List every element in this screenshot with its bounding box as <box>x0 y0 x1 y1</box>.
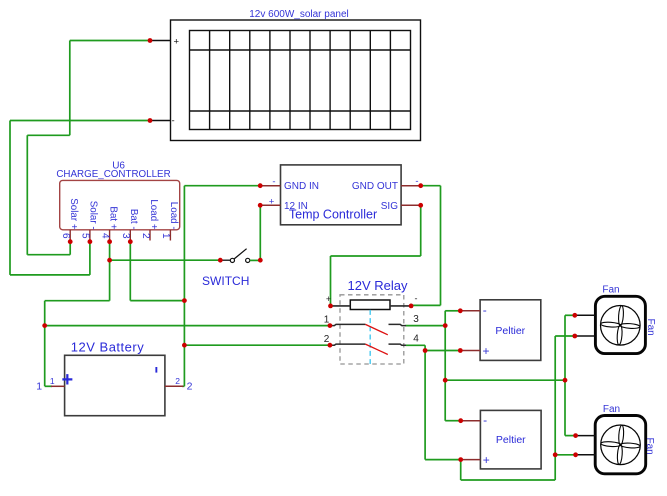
svg-text:+: + <box>483 453 490 467</box>
svg-text:1: 1 <box>50 376 55 386</box>
svg-text:Fan: Fan <box>644 438 655 455</box>
svg-text:2: 2 <box>175 376 180 386</box>
node peltier1 + <box>458 348 463 353</box>
node fan1 term1 <box>572 313 577 318</box>
node relay contact1 <box>328 323 333 328</box>
svg-text:Peltier: Peltier <box>496 434 526 446</box>
svg-text:Fan: Fan <box>602 285 619 296</box>
wire peltier1- seg1 <box>445 310 460 312</box>
junction contact3 minus net <box>443 323 448 328</box>
battery pin 2 <box>165 376 193 393</box>
node relay contact2 <box>328 343 333 348</box>
svg-text:-: - <box>483 303 487 317</box>
svg-text:+: + <box>326 294 331 304</box>
wire fan vertical plus <box>554 336 556 480</box>
wire pin4 junction to switch <box>110 259 221 261</box>
wire minus net to peltier2- <box>445 420 461 422</box>
svg-text:12v 600W_solar panel: 12v 600W_solar panel <box>249 9 349 20</box>
wire solar+ seg2 <box>69 41 71 136</box>
wire battery+ seg4 <box>45 385 52 387</box>
wire relay contact4 seg1 <box>406 344 426 346</box>
svg-text:3: 3 <box>413 314 419 325</box>
fan 2 body <box>595 416 646 474</box>
wire peltier2+ down <box>460 460 462 480</box>
svg-text:GND IN: GND IN <box>284 181 319 192</box>
svg-text:1: 1 <box>160 233 171 239</box>
relay actuator dashed line <box>369 310 371 364</box>
temp controller pin SIG <box>381 201 421 212</box>
junction fan minus vertical <box>563 378 568 383</box>
relay dashed outline <box>340 295 404 364</box>
svg-text:Bat +: Bat + <box>107 206 118 229</box>
node relay coil+ <box>328 304 333 309</box>
svg-text:Solar +: Solar + <box>68 198 79 230</box>
wire battery- seg3 <box>183 301 185 387</box>
junction minus net fans <box>443 378 448 383</box>
peltier 2 - pin <box>461 413 487 427</box>
node peltier2 - <box>458 418 463 423</box>
junction contact4 plus net <box>423 348 428 353</box>
node GND OUT <box>418 183 423 188</box>
wire minus net horizontal to fans <box>445 379 565 381</box>
solar panel - pin <box>150 116 175 127</box>
wire switch to 12IN <box>259 205 261 260</box>
svg-text:2: 2 <box>140 233 151 239</box>
node U6 pin6 <box>68 239 73 244</box>
svg-text:2: 2 <box>187 381 193 393</box>
wire plus net vertical <box>424 351 426 460</box>
svg-text:+: + <box>174 36 180 47</box>
wire fan2 term1 <box>565 435 576 437</box>
node U6 pin3 <box>128 239 133 244</box>
wire SIG seg2 <box>331 255 421 257</box>
wire minus net vertical <box>444 311 446 421</box>
wire solar+ seg6 <box>69 242 71 255</box>
node switch right <box>258 258 263 263</box>
wire plus net to peltier1+ <box>425 350 460 352</box>
svg-text:4: 4 <box>99 233 110 239</box>
wire battery+ seg2 <box>45 300 110 302</box>
wire solar+ seg5 <box>27 254 70 256</box>
battery - mark <box>155 367 157 373</box>
wire U6 pin4 to battery+ seg1 <box>109 242 111 301</box>
svg-text:+: + <box>482 344 489 358</box>
node peltier1 - <box>458 308 463 313</box>
solar panel body <box>171 20 421 141</box>
wire fan2 term2 <box>555 454 575 456</box>
peltier 2 body <box>480 410 541 469</box>
temp controller body <box>281 165 402 225</box>
svg-text:+: + <box>269 196 275 207</box>
wire solar+ seg3 <box>27 134 70 136</box>
wire GND IN seg1 <box>184 185 260 187</box>
wire solar- seg3 <box>10 274 90 276</box>
fan 1 body <box>595 296 645 353</box>
junction fan plus vertical <box>553 452 558 457</box>
node U6 pin4 <box>107 239 112 244</box>
charge controller U6 body <box>60 180 180 229</box>
svg-text:5: 5 <box>80 233 91 239</box>
peltier 1 - pin <box>460 303 487 317</box>
wire relay contact3 to minus net <box>406 325 446 327</box>
node SIG <box>418 203 423 208</box>
wire battery+ to relay contact1 <box>45 325 330 327</box>
node U6 pin5 <box>88 239 93 244</box>
svg-text:-: - <box>483 413 487 427</box>
svg-text:4: 4 <box>413 334 419 345</box>
svg-text:1: 1 <box>36 381 42 393</box>
junction battery- contact2 <box>182 343 187 348</box>
junction pin4-switch <box>107 258 112 263</box>
svg-text:-: - <box>415 294 418 304</box>
battery body <box>65 355 165 415</box>
wire battery- to relay contact2 <box>184 344 330 346</box>
wire solar- seg2 <box>9 121 11 275</box>
wire plus net to peltier2+ <box>425 459 461 461</box>
svg-text:Load +: Load + <box>148 199 159 230</box>
svg-text:12V Relay: 12V Relay <box>348 278 408 293</box>
wire solar- seg4 <box>89 242 91 275</box>
wire SIG seg3 <box>330 256 332 306</box>
junction pin3 gndin battery- <box>182 298 187 303</box>
wire solar+ to U6 pin6 seg1 <box>70 40 150 42</box>
svg-text:Load -: Load - <box>168 202 179 230</box>
wire battery- seg4 <box>182 385 184 387</box>
wire solar- to U6 pin5 seg1 <box>10 120 150 122</box>
wire plus net bottom horizontal <box>461 479 556 481</box>
node GND IN <box>258 183 263 188</box>
node solar+ terminal <box>148 38 153 43</box>
wire SIG to relay coil+ seg1 <box>420 205 422 256</box>
wire GND OUT seg3 <box>411 304 440 306</box>
svg-text:+: + <box>61 369 73 391</box>
svg-text:Solar -: Solar - <box>88 201 99 230</box>
svg-text:-: - <box>415 176 418 187</box>
svg-text:SWITCH: SWITCH <box>202 274 249 288</box>
wire GND OUT to relay coil- seg1 <box>421 185 441 187</box>
wire contact4 seg2 <box>424 345 426 350</box>
svg-text:6: 6 <box>60 233 71 239</box>
wire GND OUT seg2 <box>440 186 442 306</box>
node 12 IN <box>258 203 263 208</box>
svg-text:Bat -: Bat - <box>128 209 139 230</box>
wire fan vertical minus <box>564 315 566 435</box>
wire solar+ seg4 <box>26 135 28 254</box>
wire U6 pin3 to battery- seg1 <box>129 242 131 301</box>
wire fan1 term2 <box>555 335 575 337</box>
fan 1 pins <box>575 315 595 336</box>
switch SW1 <box>223 249 261 263</box>
wire fan1 term1 <box>565 314 575 316</box>
svg-text:Fan: Fan <box>645 319 656 336</box>
node fan2 term2 <box>573 452 578 457</box>
wire battery- seg2 <box>130 300 184 302</box>
battery pin 1 <box>36 376 64 393</box>
svg-text:-: - <box>172 116 175 127</box>
junction battery+ contact1 <box>42 323 47 328</box>
temp controller pin 12 IN <box>260 196 308 212</box>
temp controller pin GND OUT <box>352 176 421 192</box>
fan 2 pins <box>576 436 596 455</box>
svg-text:Peltier: Peltier <box>495 325 525 337</box>
svg-text:3: 3 <box>120 233 131 239</box>
temp controller pin GND IN <box>260 177 319 193</box>
node fan2 term1 <box>573 433 578 438</box>
peltier 1 + pin <box>460 344 489 358</box>
peltier 2 + pin <box>461 453 490 467</box>
svg-text:-: - <box>272 177 275 188</box>
U6 pin stubs <box>70 230 170 242</box>
solar panel + pin <box>150 36 180 47</box>
node switch left <box>218 258 223 263</box>
node fan1 term2 <box>572 334 577 339</box>
peltier 1 body <box>480 300 541 361</box>
relay contact 1-3 <box>330 324 406 334</box>
relay contact 2-4 <box>330 344 406 354</box>
wire GND IN seg2 <box>183 186 185 301</box>
svg-text:12 IN: 12 IN <box>284 201 308 212</box>
svg-text:CHARGE_CONTROLLER: CHARGE_CONTROLLER <box>56 169 170 180</box>
wire battery+ seg3 <box>44 301 46 387</box>
node relay coil- <box>409 304 414 309</box>
svg-text:Fan: Fan <box>603 404 620 415</box>
relay coil <box>326 294 418 310</box>
svg-text:SIG: SIG <box>381 201 398 212</box>
svg-text:GND OUT: GND OUT <box>352 181 398 192</box>
node peltier2 + <box>458 457 463 462</box>
node solar- terminal <box>148 118 153 123</box>
svg-text:12V Battery: 12V Battery <box>71 340 144 355</box>
